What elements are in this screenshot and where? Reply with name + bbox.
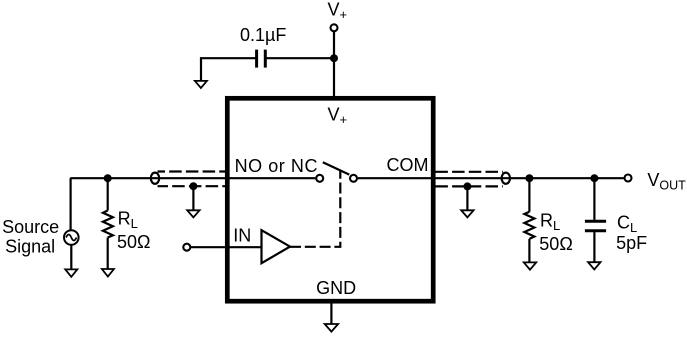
wire left shield to ground [192,186,194,210]
svg-text:Source: Source [2,217,59,237]
svg-text:0.1µF: 0.1µF [240,25,286,45]
switch pole circle (NO/NC) [316,175,323,182]
ground (source) [65,269,77,276]
wire RL left bottom [107,238,109,270]
coax shield left bottom (dashed) [158,185,226,187]
svg-text:5pF: 5pF [616,233,647,253]
wire IN to buffer [191,246,262,248]
svg-text:50Ω: 50Ω [539,234,572,254]
wire right shield to ground [466,186,468,210]
wire RL left top [107,178,109,210]
svg-text:50Ω: 50Ω [117,232,150,252]
resistor RL right zigzag [524,212,534,239]
wire C1 right segment [265,57,334,59]
junction dot (source / RL) [104,174,112,182]
coax right end ellipse [502,173,510,184]
svg-text:Signal: Signal [5,237,55,257]
svg-text:IN: IN [233,226,251,246]
wire CL bottom [593,232,595,262]
wire source bottom vertical [70,245,72,270]
junction dot (CL) [590,174,598,182]
ground (CL) [588,262,600,269]
capacitor C1 0.1uF plates [257,50,266,68]
wire COM internal to box edge [358,177,435,179]
buffer driver triangle [262,230,291,263]
ground (left shield) [187,210,199,217]
wire RL right bottom [528,239,530,263]
junction dot (V+ / C1) [330,54,338,62]
label Source Signal [2,217,59,257]
ground (GND pin) [325,324,338,332]
resistor RL left zigzag [103,211,113,238]
svg-text:GND: GND [316,278,356,298]
ground (right shield) [461,210,473,217]
coax left end ellipse [151,173,159,184]
wire RL right top [528,178,530,212]
wire CL top [593,178,595,220]
wire C1 left segment with corner down [201,58,257,81]
junction dot (RL right) [525,174,533,182]
terminal V+ (open circle) [331,24,338,31]
coax shield left top (dashed) [158,170,226,172]
junction dot (right shield ground) [463,182,471,190]
ground (C1 bypass) [195,81,207,88]
coax shield right top (dashed) [435,171,503,173]
dashed actuator link [290,171,340,247]
wire left main (source to switch pole) [70,177,315,179]
terminal VOUT (open circle) [625,175,632,182]
switch throw circle (COM) [350,175,357,182]
capacitor CL plates [585,221,606,231]
wire source top vertical [69,178,71,230]
wire V+ vertical to IC [333,32,335,98]
wire right main (COM to VOUT) [435,177,623,179]
ground (RL right) [524,262,536,269]
coax shield right bottom (dashed) [435,185,503,187]
source V1 sine generator [64,230,79,245]
IC U1 analog switch body [227,98,433,301]
svg-text:NO or NC: NO or NC [235,156,318,176]
ground (RL left) [102,269,114,277]
junction dot (left shield ground) [189,182,197,190]
terminal IN (open circle) [183,244,190,251]
switch blade [323,162,350,174]
svg-text:COM: COM [387,155,429,175]
wire GND pin [330,303,332,324]
